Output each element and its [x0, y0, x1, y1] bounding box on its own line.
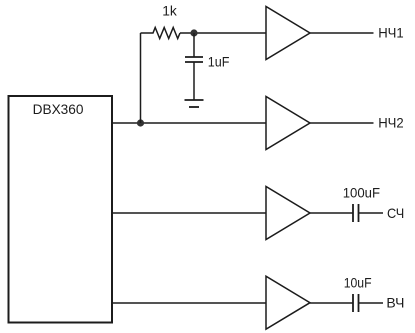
wire pin2 to buffer 3 input [112, 212, 266, 214]
IC U1 DBX360 box [9, 96, 113, 323]
resistor R 1k zigzag [141, 28, 181, 39]
svg-text:СЧ: СЧ [387, 205, 404, 221]
op-amp buffer 3 [266, 187, 310, 240]
svg-text:DBX360: DBX360 [33, 101, 84, 117]
node junction on pin1 wire [137, 119, 144, 126]
op-amp buffer 1 [266, 7, 310, 60]
capacitor C 1uF bottom lead [193, 62, 195, 100]
op-amp buffer 4 [266, 276, 310, 329]
svg-text:1k: 1k [162, 2, 178, 18]
svg-text:10uF: 10uF [344, 275, 372, 291]
wire resistor to buffer 1 input [180, 32, 266, 34]
wire pin1 to buffer 2 input [112, 122, 266, 124]
svg-text:1uF: 1uF [208, 54, 230, 70]
wire vertical riser to resistor [140, 33, 142, 123]
wire buffer 2 output [310, 122, 374, 124]
ground [185, 99, 204, 101]
wire buffer 1 output [310, 32, 374, 34]
wire pin3 to buffer 4 input [112, 302, 266, 304]
capacitor C 1uF top lead [193, 33, 195, 57]
op-amp buffer 2 [266, 97, 310, 150]
capacitor C 1uF plates [185, 56, 203, 58]
svg-text:НЧ1: НЧ1 [378, 24, 404, 40]
wire buffer 4 output to capacitor [310, 302, 353, 304]
wire capacitor to ВЧ [359, 302, 384, 304]
node junction resistor/capacitor [190, 29, 197, 36]
capacitor C 100uF [352, 204, 354, 222]
capacitor C 10uF [352, 294, 354, 312]
svg-text:100uF: 100uF [343, 185, 380, 201]
wire buffer 3 output to capacitor [310, 212, 353, 214]
svg-text:ВЧ: ВЧ [386, 295, 404, 311]
wire capacitor to СЧ [359, 212, 384, 214]
svg-text:НЧ2: НЧ2 [378, 114, 404, 130]
